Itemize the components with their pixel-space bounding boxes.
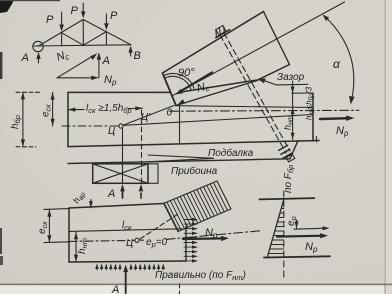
support block X brace [93, 164, 148, 184]
chord cut line (lower gap line) [176, 80, 258, 105]
detail notch floor line [69, 229, 182, 232]
force arrow N_c (thick) [175, 73, 212, 95]
zazor leader arrow [258, 78, 309, 85]
svg-text:Ц: Ц [126, 238, 133, 249]
dimension e_p [295, 220, 299, 228]
truss top chord right [83, 20, 131, 45]
svg-text:P: P [46, 14, 54, 26]
svg-text:eр=0: eр=0 [146, 237, 168, 249]
bolster bottom edge [68, 159, 290, 164]
chord top edge right of notch [292, 92, 313, 94]
bolt washer and nut at bolster bottom [279, 145, 295, 162]
svg-text:Подбалка: Подбалка [208, 147, 254, 159]
strut top edge [163, 12, 264, 74]
detail top edge [69, 204, 164, 209]
dimension e_sk (detail left) [44, 209, 69, 243]
chord left end edge [67, 92, 69, 146]
strut right end face [264, 12, 290, 65]
svg-text:Ц: Ц [108, 126, 115, 137]
force N_c (hypotenuse) [57, 53, 98, 78]
strut axis line (N_c axis, to alpha angle) [172, 2, 345, 96]
force arrow N_p (far right) [320, 116, 355, 121]
strut bottom edge [181, 65, 290, 93]
truss bottom chord [33, 45, 131, 46]
load arrow P3 [104, 14, 109, 30]
support block rectangle [93, 164, 148, 184]
axis line C to O (net centroid axis) [121, 106, 174, 127]
dimension l_sk (inside chord) [68, 106, 143, 111]
svg-text:Ц': Ц' [141, 112, 151, 123]
diagram top bar [259, 198, 314, 199]
diagram dashed vertical axis [283, 191, 285, 277]
90-degree angle arc (double) [164, 76, 191, 89]
load arrow P1 [59, 12, 64, 32]
reaction arrow A solid [120, 184, 125, 198]
diagram bottom bar [264, 256, 330, 257]
bolt washer and nut on strut top edge [212, 24, 229, 38]
svg-text:A: A [102, 55, 110, 67]
hatched strut stub [164, 181, 231, 231]
force A (vertical side) [97, 52, 101, 78]
notch face projection vertical [179, 104, 181, 143]
truss top chord left [39, 20, 84, 47]
truss vertical web 1 [61, 33, 63, 46]
svg-text:A: A [107, 188, 115, 200]
distributed support arrows under detail [95, 263, 165, 270]
distributed stress arrows on net face [184, 218, 198, 263]
dimension h_nt (detail, inside) [74, 232, 78, 262]
svg-text:0: 0 [167, 108, 173, 119]
force N_p (horizontal side) [57, 76, 99, 80]
chord bottom edge [68, 141, 319, 147]
notch floor / cut surface [176, 106, 313, 108]
chord right end edge [312, 93, 314, 141]
detail net-section face [185, 226, 187, 261]
detail bottom edge [69, 261, 186, 262]
truss diagonal web left [62, 33, 84, 45]
bolt shaft (two dashed lines) [220, 35, 286, 153]
dimension line right end (h_vr and h_nt) [291, 81, 295, 140]
force arrow N_p (diagram) [277, 233, 328, 238]
centre point C circle (detail) [135, 238, 139, 242]
reaction axis solid vertical [122, 129, 124, 184]
horizontal N_p axis (dash-dot) [169, 109, 359, 112]
svg-text:Зазор: Зазор [277, 72, 305, 83]
support block right extension [148, 164, 158, 184]
scan artifacts [0, 0, 14, 13]
centre point C circle [119, 124, 123, 128]
bolster beveled right end [290, 141, 298, 159]
stress triangle hypotenuse [268, 199, 284, 256]
dashed marks below text [179, 284, 181, 294]
priboina wedge [148, 155, 214, 162]
arrowhead at notch on gap line [177, 99, 185, 105]
stress triangle hatching [268, 204, 284, 254]
alpha angle arc [323, 15, 355, 105]
dashed sight line from C to notch [140, 214, 178, 239]
reaction arrow B (right support) [128, 46, 132, 56]
reaction arrow dashed [139, 184, 144, 198]
svg-text:α: α [333, 57, 341, 71]
reaction arrow A (left support) [36, 52, 40, 63]
svg-text:Прибоина: Прибоина [171, 165, 218, 177]
dash-dot axis through C (detail) [69, 231, 262, 242]
force arrow N_p (detail) [183, 236, 229, 241]
detail notch butt face [164, 204, 178, 232]
svg-text:90°: 90° [178, 67, 195, 79]
svg-text:B: B [134, 50, 141, 62]
notch butt face [163, 73, 177, 106]
centreline arrow right [294, 226, 330, 230]
dimension e_sk (left) [51, 92, 55, 126]
reaction arrow A (detail) [123, 265, 128, 294]
chord mid line from C to right end [123, 115, 313, 126]
truss left support circle [33, 41, 43, 51]
auxiliary dashed vertical [141, 110, 143, 183]
svg-text:P: P [110, 10, 118, 22]
C level dash-dot to left edge [62, 125, 119, 127]
dimension h_br (left) [16, 92, 42, 147]
chord top edge [68, 91, 171, 93]
load arrow P2 [81, 3, 86, 18]
svg-text:P: P [71, 5, 79, 17]
chord bottom overshoot tick [316, 137, 318, 143]
truss vertical web 3 [105, 32, 107, 45]
detail left edge [68, 208, 70, 262]
truss vertical web 2 [82, 20, 84, 46]
truss diagonal web right [83, 32, 106, 46]
svg-text:A: A [21, 52, 29, 64]
svg-text:A: A [111, 284, 119, 294]
dimension h_vr (detail top, outside arrow) [89, 200, 93, 208]
